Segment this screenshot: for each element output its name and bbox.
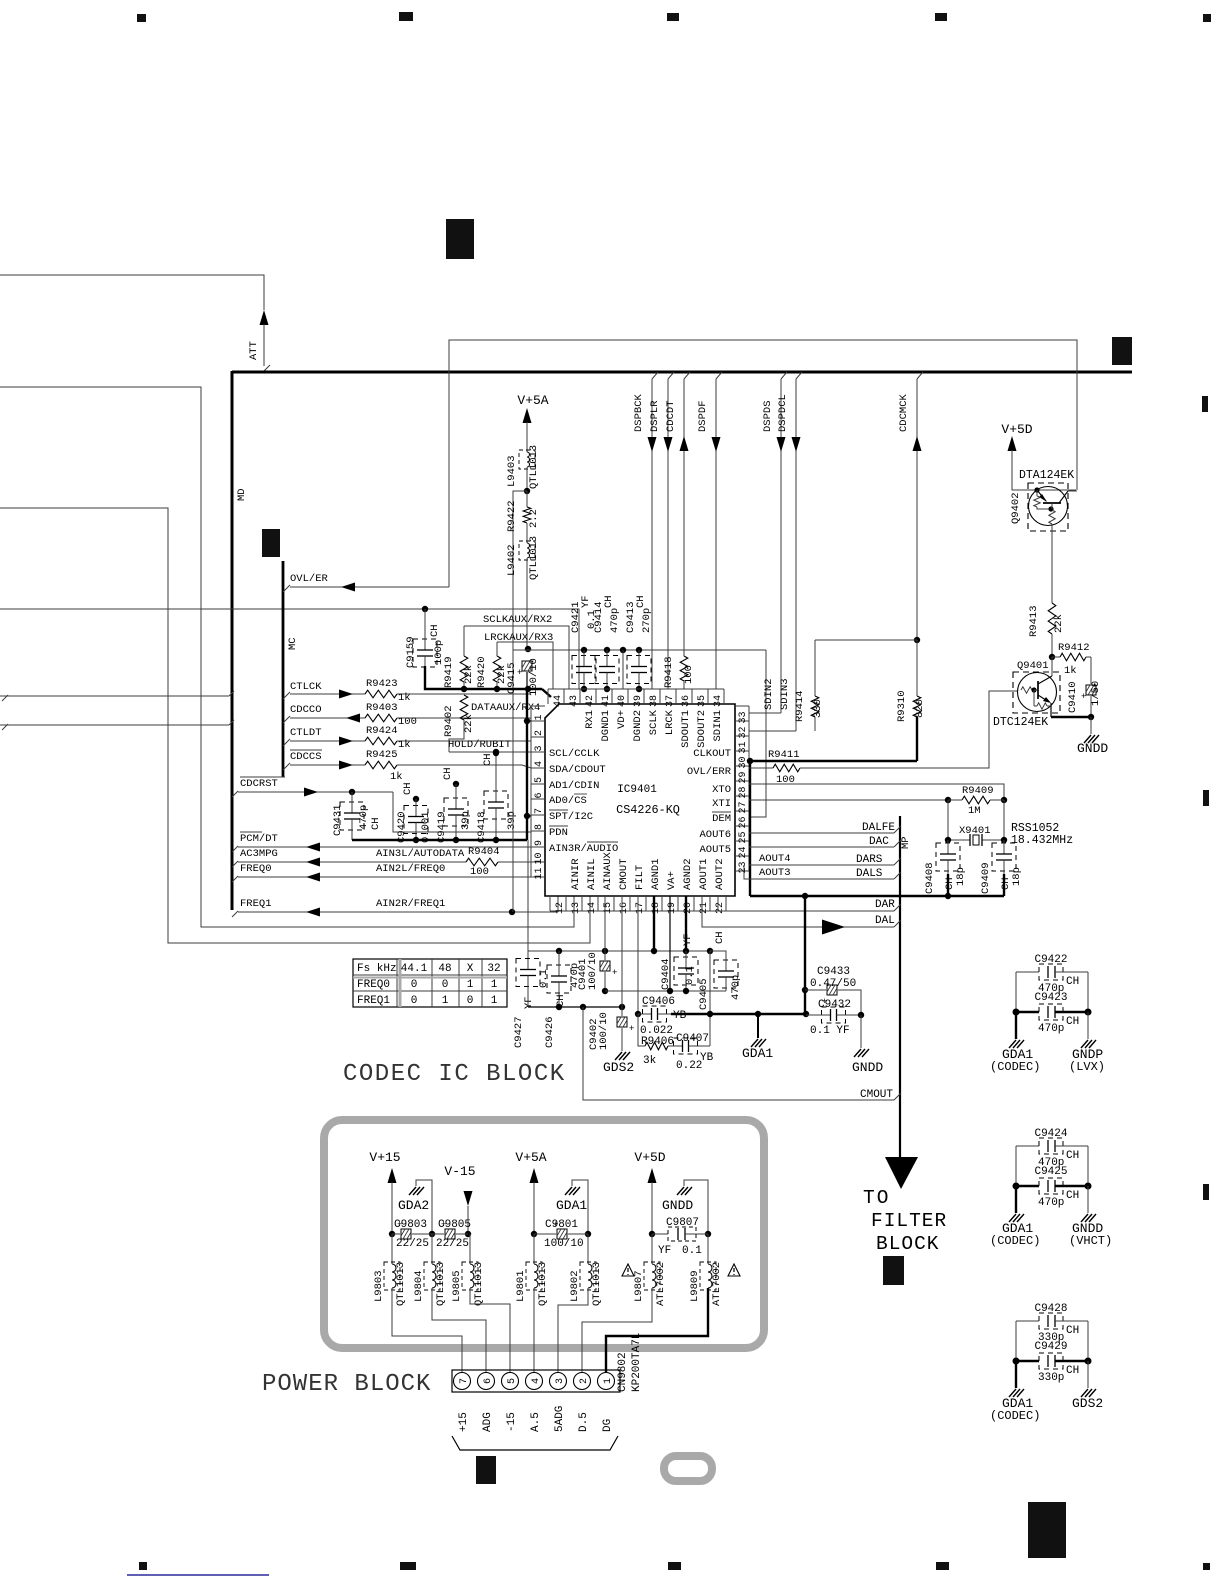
DSPBCK line [652, 372, 658, 379]
codec block left thick border [231, 371, 234, 910]
svg-text:39p: 39p [460, 811, 472, 830]
cap C9426 470p CH [556, 948, 562, 954]
DSPDCL line to SDIN3 [796, 372, 802, 379]
svg-text:1: 1 [467, 979, 474, 991]
VD+ rail above IC [513, 649, 766, 651]
svg-text:5: 5 [534, 777, 545, 783]
svg-text:470p: 470p [730, 975, 742, 1000]
inductor L9809 ATL7002 [707, 1234, 709, 1264]
svg-text:R9418: R9418 [663, 656, 675, 688]
svg-text:0.001: 0.001 [420, 811, 432, 843]
cap C9421 0.1 YF [581, 647, 587, 653]
svg-text:R9409: R9409 [962, 785, 994, 797]
svg-text:DTA124EK: DTA124EK [1019, 469, 1074, 482]
svg-text:C9427: C9427 [513, 1016, 525, 1048]
svg-text:SCLKAUX/RX2: SCLKAUX/RX2 [483, 614, 552, 626]
svg-text:L9802: L9802 [569, 1270, 581, 1302]
svg-text:L9804: L9804 [413, 1270, 425, 1302]
ground GDA1 [1015, 1361, 1017, 1388]
svg-text:OVL/ERR: OVL/ERR [687, 766, 732, 778]
svg-text:16: 16 [619, 902, 630, 914]
AGND upper rail [528, 950, 726, 952]
svg-text:12: 12 [555, 902, 566, 914]
svg-text:DAR: DAR [875, 899, 895, 911]
svg-text:+: + [553, 1220, 558, 1230]
svg-text:TO: TO [863, 1187, 890, 1209]
svg-text:22k: 22k [1053, 614, 1065, 633]
svg-text:25: 25 [738, 831, 749, 843]
SDIN2 wire pin33 [749, 712, 781, 714]
svg-text:R9419: R9419 [443, 656, 455, 688]
svg-text:V+5A: V+5A [517, 393, 548, 408]
svg-text:330: 330 [812, 699, 824, 718]
svg-text:GDS2: GDS2 [603, 1060, 634, 1075]
svg-text:DSPDCL: DSPDCL [777, 394, 789, 432]
svg-text:DALFE: DALFE [862, 822, 895, 834]
svg-text:C9419: C9419 [436, 811, 448, 843]
svg-text:YB: YB [673, 1010, 687, 1022]
svg-text:CS4226-KQ: CS4226-KQ [616, 803, 680, 817]
cap C9413 270p CH [636, 647, 642, 653]
svg-text:14: 14 [587, 902, 598, 914]
svg-text:CH: CH [429, 624, 441, 637]
inductor L9801 QTL1013 [533, 1234, 535, 1264]
svg-text:CN9802: CN9802 [617, 1352, 629, 1392]
svg-text:CTLDT: CTLDT [290, 727, 322, 739]
svg-text:DARS: DARS [856, 854, 883, 866]
svg-text:5ADG: 5ADG [554, 1406, 566, 1432]
GNDD ground [860, 1015, 862, 1048]
svg-text:V-15: V-15 [444, 1164, 475, 1179]
svg-text:(CODEC): (CODEC) [990, 1060, 1040, 1074]
pin20 AGND2 thick riser + cap C9404 0.1 YF [685, 896, 687, 951]
IC9401 CS4226-KQ body [545, 704, 735, 896]
svg-text:0: 0 [411, 979, 418, 991]
DSPDS line to SDIN2 [781, 372, 787, 379]
svg-text:19: 19 [667, 902, 678, 914]
AC3MPG wire / AIN3L/AUTODATA + R9404 100 [232, 861, 238, 867]
svg-text:C9432: C9432 [818, 999, 851, 1011]
svg-text:CDCCO: CDCCO [290, 704, 322, 716]
svg-text:41: 41 [601, 695, 612, 707]
svg-text:L9403: L9403 [506, 455, 518, 487]
svg-text:GDA2: GDA2 [398, 1198, 429, 1213]
svg-text:VA+: VA+ [666, 871, 678, 890]
svg-text:470p: 470p [1038, 1023, 1064, 1035]
SDIN3 wire pin32 [749, 730, 796, 732]
svg-text:34: 34 [713, 695, 724, 707]
svg-text:L9807: L9807 [633, 1270, 645, 1302]
svg-text:AINIR: AINIR [570, 858, 582, 890]
svg-text:LRCK: LRCK [664, 709, 676, 735]
svg-text:48: 48 [438, 963, 451, 975]
svg-text:1: 1 [491, 995, 498, 1007]
svg-text:9: 9 [534, 840, 545, 846]
svg-text:(CODEC): (CODEC) [990, 1409, 1040, 1423]
svg-text:AOUT1: AOUT1 [698, 858, 710, 890]
cap C9401 100/10 electrolytic [602, 948, 608, 954]
ground GDA1 [565, 1187, 572, 1195]
svg-text:22/25: 22/25 [396, 1238, 429, 1250]
cap C9408 18p CH [936, 843, 960, 871]
DAL wire pin21 [702, 896, 894, 927]
XTO wire pin28 [749, 784, 1004, 799]
DARS wire AOUT4 pin23 [749, 864, 894, 866]
svg-text:OVL/ER: OVL/ER [290, 573, 329, 585]
svg-text:2.2: 2.2 [528, 509, 540, 528]
cap C9405 470p CH [707, 948, 713, 954]
svg-text:CH: CH [402, 782, 414, 795]
svg-text:13: 13 [571, 902, 582, 914]
svg-text:GNDD: GNDD [852, 1060, 883, 1075]
wire to AINIR (pin13) from left [0, 387, 574, 927]
registration marks [137, 14, 146, 22]
crystal X9401 RSS1052 18.432MHz [947, 800, 949, 840]
CDCMCK line [917, 372, 923, 379]
riser to analog ground bus [709, 951, 711, 1014]
svg-text:470p: 470p [609, 608, 621, 633]
svg-text:CH: CH [442, 767, 454, 780]
svg-text:R9424: R9424 [366, 725, 398, 737]
svg-text:C9418: C9418 [476, 811, 488, 843]
svg-text:HOLD/RUBIT: HOLD/RUBIT [448, 739, 511, 751]
Q9401 collector wire up [1051, 657, 1053, 676]
svg-text:XTO: XTO [712, 784, 731, 796]
svg-text:36: 36 [681, 695, 692, 707]
svg-text:L9803: L9803 [373, 1270, 385, 1302]
branch wire to rail [513, 491, 527, 912]
svg-text:R9411: R9411 [768, 749, 800, 761]
svg-text:Q9401: Q9401 [1017, 660, 1049, 672]
cap C9410 1/50 electrolytic [1090, 657, 1092, 684]
svg-text:POWER BLOCK: POWER BLOCK [262, 1371, 431, 1398]
svg-text:3: 3 [555, 1378, 566, 1384]
svg-text:39p: 39p [506, 811, 518, 830]
svg-text:CH: CH [1066, 1365, 1079, 1377]
svg-text:43: 43 [569, 695, 580, 707]
svg-text:20: 20 [683, 902, 694, 914]
resistor R9420 22k [496, 642, 498, 656]
svg-text:AIN2L/FREQ0: AIN2L/FREQ0 [376, 863, 445, 875]
svg-text:V+5D: V+5D [1001, 422, 1032, 437]
wire ATT from left edge [0, 275, 264, 310]
svg-text:100: 100 [683, 665, 695, 684]
svg-text:AOUT3: AOUT3 [759, 867, 791, 879]
svg-text:CMOUT: CMOUT [618, 858, 630, 890]
svg-text:0.1 YF: 0.1 YF [810, 1025, 850, 1037]
svg-text:PCM/DT: PCM/DT [240, 833, 278, 845]
svg-text:R9425: R9425 [366, 749, 398, 761]
svg-text:2: 2 [579, 1378, 590, 1384]
unit wiring [1015, 972, 1017, 1012]
svg-text:A.5: A.5 [530, 1412, 542, 1432]
svg-text:SCL/CCLK: SCL/CCLK [549, 748, 600, 760]
MP bus line [899, 816, 901, 1157]
svg-text:0: 0 [467, 995, 474, 1007]
frequency select table [353, 959, 507, 1007]
power wires to connector [392, 1288, 462, 1372]
svg-text:32: 32 [487, 963, 500, 975]
TO FILTER BLOCK arrow [885, 1157, 918, 1189]
svg-text:35: 35 [697, 695, 708, 707]
svg-text:QTL1013: QTL1013 [395, 1262, 407, 1306]
svg-text:100/10: 100/10 [528, 658, 540, 696]
svg-text:IC9401: IC9401 [617, 784, 657, 796]
svg-text:CH: CH [714, 931, 726, 944]
svg-text:R9310: R9310 [896, 690, 908, 722]
svg-text:3: 3 [534, 745, 545, 751]
ground GDA1 [1015, 1012, 1017, 1039]
svg-text:L9801: L9801 [515, 1270, 527, 1302]
svg-text:1: 1 [491, 979, 498, 991]
svg-text:0.1: 0.1 [684, 966, 696, 985]
IC bottom pin row [550, 910, 726, 912]
svg-text:29: 29 [738, 771, 749, 783]
svg-text:4: 4 [534, 761, 545, 767]
codec block top thick border [232, 371, 1132, 374]
resistor R9409 1M [962, 796, 990, 804]
DSPDF line [716, 372, 722, 379]
svg-text:CDCCS: CDCCS [290, 751, 322, 763]
IC right pin column [748, 706, 750, 871]
resistor R9422 2.2 [526, 491, 528, 507]
power block border [324, 1120, 764, 1348]
Q9402 base wire down [1051, 531, 1053, 603]
svg-text:C9408: C9408 [924, 862, 936, 894]
svg-text:AC3MPG: AC3MPG [240, 848, 278, 860]
svg-text:42: 42 [585, 695, 596, 707]
connector CN9802 KP200TA7L [452, 1370, 620, 1392]
inductor L9804 QTL1013 [431, 1234, 433, 1264]
wire to AINIL (pin14) from left [0, 508, 590, 943]
svg-text:BLOCK: BLOCK [876, 1233, 940, 1255]
svg-text:R9420: R9420 [476, 656, 488, 688]
line from left into MC area 2 [0, 724, 229, 726]
svg-text:+15: +15 [458, 1412, 470, 1432]
svg-text:V+15: V+15 [369, 1150, 400, 1165]
svg-text:38: 38 [649, 695, 660, 707]
svg-text:1k: 1k [398, 739, 411, 751]
riser from cap commons rail [527, 840, 529, 962]
resistor R9402 22k [460, 695, 468, 720]
resistor R9310 820 [916, 640, 918, 696]
unit wiring [1015, 1146, 1017, 1186]
caps common thick rail [352, 839, 527, 841]
svg-text:AOUT6: AOUT6 [699, 829, 731, 841]
resistor R9413 22k [1048, 603, 1056, 634]
svg-text:8: 8 [534, 824, 545, 830]
svg-text:CDCMCK: CDCMCK [898, 393, 910, 432]
PCM/DT wire to AIN3R [232, 846, 238, 852]
Q9401 emitter wire to ground [1050, 703, 1052, 717]
svg-text:CMOUT: CMOUT [860, 1089, 893, 1101]
svg-text:470p: 470p [358, 805, 370, 830]
ground GNDD [677, 1187, 684, 1195]
svg-text:DEM: DEM [712, 813, 731, 825]
svg-text:1k: 1k [390, 771, 403, 783]
svg-text:QTL1013: QTL1013 [537, 1262, 549, 1306]
cap C9420 0.001 CH [413, 796, 419, 802]
svg-text:R9422: R9422 [506, 500, 518, 532]
svg-text:33: 33 [738, 711, 749, 723]
svg-text:CTLCK: CTLCK [290, 681, 322, 693]
svg-text:4: 4 [531, 1378, 542, 1384]
cap C9418 39p CH [493, 749, 499, 755]
svg-text:R9412: R9412 [1058, 642, 1090, 654]
cap C9433 0.47/50 electrolytic [802, 987, 808, 993]
svg-text:SDIN3: SDIN3 [779, 678, 791, 710]
crystal network X9401 [945, 797, 951, 803]
svg-text:SPT/I2C: SPT/I2C [549, 811, 593, 823]
svg-text:26: 26 [738, 816, 749, 828]
CDCDT line + R9418 100 [684, 372, 690, 379]
cap C9159 100p CH [422, 606, 428, 612]
svg-text:44.1: 44.1 [401, 963, 428, 975]
bracket under connector [452, 1436, 618, 1450]
svg-text:V+5A: V+5A [515, 1150, 546, 1165]
svg-text:40: 40 [617, 695, 628, 707]
DALFE wire pin25 [749, 832, 894, 834]
svg-text:FILT: FILT [634, 865, 646, 890]
ground GDA1 [1015, 1186, 1017, 1213]
svg-text:SDIN2: SDIN2 [763, 678, 775, 710]
svg-text:PDN: PDN [549, 827, 568, 839]
svg-text:(LVX): (LVX) [1069, 1060, 1105, 1074]
svg-text:C9415: C9415 [506, 662, 518, 694]
svg-text:YF: YF [580, 595, 592, 608]
svg-text:32: 32 [738, 726, 749, 738]
svg-text:V+5D: V+5D [634, 1150, 665, 1165]
svg-text:+: + [397, 1220, 402, 1230]
svg-text:ADG: ADG [482, 1412, 494, 1432]
svg-text:CLKOUT: CLKOUT [693, 748, 731, 760]
svg-text:Q9402: Q9402 [1010, 492, 1022, 524]
svg-text:C9410: C9410 [1067, 681, 1079, 713]
black position blocks [446, 219, 474, 259]
svg-text:R9404: R9404 [468, 846, 500, 858]
svg-text:DAL: DAL [875, 915, 895, 927]
svg-text:3k: 3k [643, 1055, 657, 1067]
svg-text:21: 21 [699, 902, 710, 914]
cap C9414 470p CH [604, 647, 610, 653]
svg-text:CH: CH [944, 877, 956, 890]
svg-text:AOUT2: AOUT2 [714, 858, 726, 890]
svg-text:C9404: C9404 [660, 958, 672, 990]
svg-text:7: 7 [459, 1378, 470, 1384]
svg-text:ATL7002: ATL7002 [655, 1262, 667, 1306]
svg-text:GNDD: GNDD [1077, 741, 1108, 756]
IC top pin row [548, 688, 724, 690]
cap C9427 0.1 YF [516, 959, 540, 987]
svg-text:CH: CH [1066, 1150, 1079, 1162]
svg-text:+: + [612, 968, 617, 978]
svg-text:MD: MD [236, 488, 248, 501]
svg-text:AGND2: AGND2 [682, 858, 694, 890]
svg-text:X: X [467, 963, 474, 975]
svg-text:QTL1013: QTL1013 [435, 1262, 447, 1306]
svg-text:(VHCT): (VHCT) [1069, 1234, 1112, 1248]
svg-text:RX1: RX1 [584, 710, 596, 729]
pin18 AGND1 thick riser [653, 896, 655, 951]
FREQ1 wire / AIN2R/FREQ1 [232, 911, 238, 917]
svg-text:C9431: C9431 [332, 804, 344, 836]
svg-text:CDCRST: CDCRST [240, 778, 278, 790]
svg-text:R9423: R9423 [366, 678, 398, 690]
svg-text:DSPLR: DSPLR [649, 400, 661, 432]
svg-text:AOUT4: AOUT4 [759, 853, 791, 865]
GNDD ground [1090, 717, 1092, 734]
svg-text:GDA1: GDA1 [742, 1046, 773, 1061]
svg-text:18p: 18p [1011, 867, 1023, 886]
svg-text:AGND1: AGND1 [650, 858, 662, 890]
svg-text:DATAAUX/RX4: DATAAUX/RX4 [471, 702, 540, 714]
svg-text:YF: YF [658, 1245, 671, 1257]
svg-text:C9429: C9429 [1034, 1341, 1067, 1353]
svg-text:5: 5 [507, 1378, 518, 1384]
svg-text:CDCDT: CDCDT [665, 400, 677, 432]
GDS2 ground [621, 1028, 623, 1051]
svg-text:22k: 22k [463, 665, 475, 684]
svg-text:C9405: C9405 [698, 978, 710, 1010]
svg-text:31: 31 [738, 741, 749, 753]
svg-text:27: 27 [738, 801, 749, 813]
svg-text:ATL7002: ATL7002 [711, 1262, 723, 1306]
cap C9409 18p CH [992, 843, 1016, 871]
svg-text:DSPDS: DSPDS [762, 400, 774, 432]
svg-text:1k: 1k [398, 692, 411, 704]
svg-text:AIN3L/AUTODATA: AIN3L/AUTODATA [376, 848, 465, 860]
svg-text:18p: 18p [955, 867, 967, 886]
svg-text:R9403: R9403 [366, 702, 398, 714]
svg-text:CH: CH [1000, 877, 1012, 890]
svg-text:100: 100 [398, 716, 417, 728]
svg-text:1: 1 [534, 714, 545, 720]
svg-text:1/50: 1/50 [1090, 681, 1102, 706]
inductor L9802 QTL1013 [587, 1234, 589, 1264]
svg-text:CH: CH [1066, 1016, 1079, 1028]
cap C9415 100/10 electrolytic [522, 661, 532, 671]
svg-text:ATT: ATT [248, 341, 260, 360]
svg-text:MP: MP [900, 836, 912, 849]
svg-text:100/10: 100/10 [598, 1012, 610, 1050]
svg-text:39: 39 [633, 695, 644, 707]
svg-text:470p: 470p [1038, 1197, 1064, 1209]
svg-text:YF: YF [682, 933, 694, 946]
svg-text:37: 37 [665, 695, 676, 707]
ground GNDP [1087, 1012, 1089, 1039]
resistor R9419 22k [463, 626, 465, 656]
svg-text:MC: MC [287, 637, 299, 650]
warning marks [622, 1264, 634, 1276]
cap C9402 100/10 electrolytic [621, 1007, 623, 1016]
CTLCK wire + R9423 1k [283, 692, 290, 699]
svg-text:C9407: C9407 [676, 1033, 709, 1045]
svg-text:R9402: R9402 [443, 705, 455, 737]
svg-text:0.1: 0.1 [682, 1245, 702, 1257]
svg-text:D.5: D.5 [578, 1412, 590, 1432]
svg-text:0.1: 0.1 [538, 969, 550, 988]
ground GDA2 [409, 1187, 416, 1195]
svg-text:1: 1 [603, 1378, 614, 1384]
svg-text:0.22: 0.22 [676, 1060, 702, 1072]
line from left into MC area 1 [0, 695, 229, 697]
ground GNDD [1087, 1186, 1089, 1213]
svg-text:6: 6 [534, 792, 545, 798]
svg-text:C9409: C9409 [980, 862, 992, 894]
svg-text:+: + [441, 1220, 446, 1230]
IC left pin column [530, 706, 532, 877]
svg-text:L9402: L9402 [506, 544, 518, 576]
